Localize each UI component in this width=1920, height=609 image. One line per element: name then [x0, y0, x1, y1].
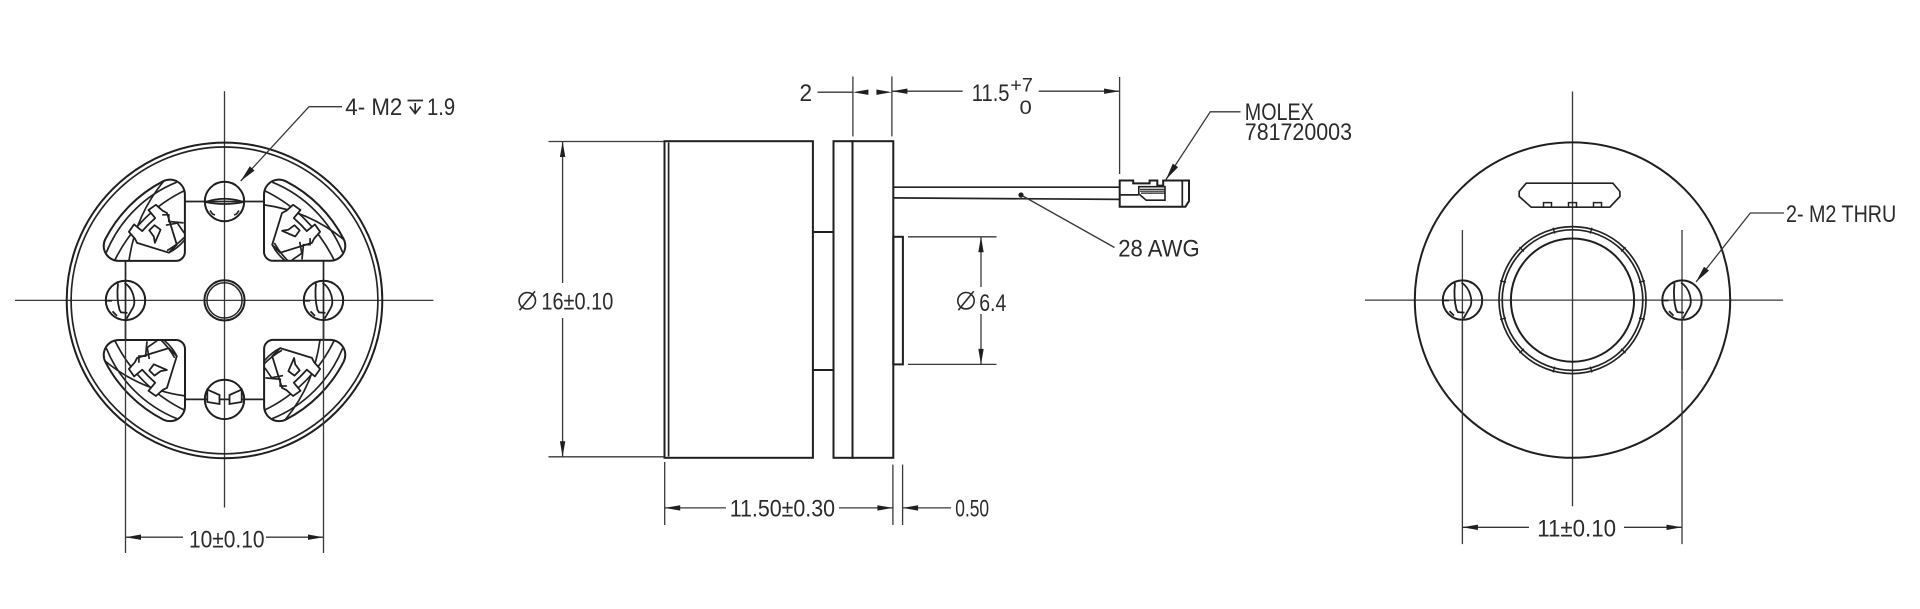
dimension Ø16 extension lines — [549, 141, 665, 143]
dimension 0.50 line — [903, 507, 951, 509]
front view outer rim circle — [67, 143, 383, 459]
rear view vertical centerline — [1572, 92, 1574, 507]
depth symbol — [408, 101, 424, 114]
mounting hole E (M2) — [304, 281, 343, 320]
stator window Q2 (top-left) — [104, 180, 185, 261]
svg-text:1.9: 1.9 — [427, 94, 455, 121]
molex connector mid line — [1120, 194, 1139, 196]
rear bearing retainer outer ring — [1499, 227, 1646, 374]
rear connector pins — [1544, 203, 1552, 208]
motor body left chamfer line — [668, 143, 670, 457]
front view shaft hole outer circle — [204, 280, 244, 320]
rear boss — [893, 237, 903, 365]
face line through hole S — [185, 398, 264, 400]
front view shaft hole inner circle — [207, 283, 242, 318]
dimension Ø6.4 text — [958, 293, 974, 309]
molex connector crimp detail — [1139, 187, 1165, 201]
dimension Ø6.4 extension lines — [908, 236, 997, 238]
rear bearing retainer crimp ticks — [1639, 318, 1645, 320]
mounting hole N (M2) — [205, 182, 244, 221]
dimension 2 extension lines — [852, 76, 854, 136]
dimension Ø6.4 line — [980, 237, 982, 287]
dimension Ø16 text — [519, 293, 535, 309]
rear hole E (M2 thru) — [1662, 280, 1701, 319]
hub upper line — [813, 231, 834, 233]
wire top line — [893, 186, 1120, 188]
svg-text:10±0.10: 10±0.10 — [189, 526, 265, 553]
front view vertical centerline — [224, 91, 226, 507]
leader MOLEX — [1166, 112, 1241, 180]
dimension 11.50 extension lines — [664, 462, 666, 525]
face line through hole E — [323, 261, 325, 340]
svg-text:11.50±0.30: 11.50±0.30 — [730, 496, 835, 523]
dimension Ø16 line — [562, 142, 564, 284]
rear connector outline — [1519, 183, 1620, 207]
callout 4-M2 leader — [241, 107, 342, 181]
stator disc — [834, 141, 853, 458]
rear view outer circle — [1415, 142, 1730, 457]
svg-text:4- M2: 4- M2 — [345, 94, 402, 121]
stator window Q1 (top-right) — [264, 180, 345, 261]
dimension 10±0.10 line — [126, 536, 184, 538]
dimension 11±0.10 extension lines — [1461, 322, 1463, 544]
svg-text:0: 0 — [1020, 97, 1032, 119]
dimension 11.5 extension line right — [1119, 77, 1121, 174]
face line through hole W — [125, 261, 127, 340]
dimension 10±0.10 extension lines — [125, 322, 127, 553]
rear hole W (M2 thru) — [1443, 280, 1482, 319]
leader 28 AWG — [1021, 195, 1115, 248]
svg-text:11.5: 11.5 — [972, 80, 1010, 107]
molex connector body — [1120, 181, 1189, 207]
svg-text:6.4: 6.4 — [979, 290, 1006, 317]
dimension 11±0.10 line — [1462, 526, 1529, 528]
front view inner rim circle — [71, 147, 378, 454]
hub lower line — [813, 369, 834, 371]
svg-text:781720003: 781720003 — [1245, 119, 1352, 146]
rear view horizontal centerline — [1365, 299, 1783, 301]
face line through hole N — [185, 201, 264, 203]
callout 2-M2 THRU leader — [1696, 213, 1784, 282]
mounting flange — [853, 141, 894, 458]
mounting hole W (M2) — [106, 281, 145, 320]
rear hole E centerline — [1681, 230, 1683, 370]
dimension 2 line — [818, 91, 853, 93]
stator window Q3 (bottom-left) — [104, 340, 185, 421]
front view horizontal centerline — [15, 299, 433, 301]
svg-text:16±0.10: 16±0.10 — [541, 288, 613, 315]
svg-text:28 AWG: 28 AWG — [1118, 236, 1199, 263]
svg-text:2: 2 — [800, 80, 813, 107]
stator window Q4 (bottom-right) — [264, 340, 345, 421]
dimension 11.5 line — [892, 90, 963, 92]
rear bearing retainer inner ring — [1502, 230, 1643, 371]
molex connector end cap line — [1181, 181, 1183, 207]
mounting hole S (M2) — [205, 380, 244, 419]
wire bottom line — [893, 198, 1120, 200]
dimension 11.50 line — [665, 507, 726, 509]
svg-text:+7: +7 — [1010, 75, 1033, 97]
svg-text:2- M2 THRU: 2- M2 THRU — [1786, 201, 1896, 228]
svg-text:0.50: 0.50 — [955, 496, 989, 523]
rear hole W centerline — [1461, 230, 1463, 370]
motor body outline — [665, 141, 813, 458]
svg-text:11±0.10: 11±0.10 — [1537, 516, 1616, 543]
rear bore circle — [1511, 239, 1634, 362]
